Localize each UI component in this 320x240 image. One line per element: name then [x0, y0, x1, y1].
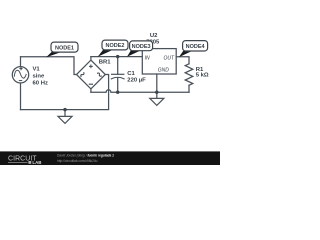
svg-text:GND: GND	[158, 67, 170, 73]
svg-text:OUT: OUT	[163, 55, 175, 61]
svg-text:220 µF: 220 µF	[127, 78, 146, 84]
svg-text:http://circuitlab.com/c96k24u: http://circuitlab.com/c96k24u	[57, 159, 98, 163]
svg-text:NODE1: NODE1	[55, 45, 74, 51]
svg-text:sine: sine	[33, 74, 46, 80]
svg-text:V1: V1	[33, 67, 41, 73]
svg-text:David Jordan (deej) / fuente r: David Jordan (deej) / fuente regulada 1	[57, 154, 114, 158]
svg-text:5 kΩ: 5 kΩ	[196, 73, 209, 79]
svg-text:U2: U2	[150, 33, 158, 39]
svg-text:LAB: LAB	[32, 160, 41, 165]
svg-text:BR1: BR1	[99, 59, 112, 65]
svg-text:NODE4: NODE4	[186, 44, 206, 50]
svg-text:60 Hz: 60 Hz	[33, 81, 48, 87]
svg-text:NODE2: NODE2	[106, 43, 125, 49]
svg-text:NODE3: NODE3	[132, 44, 151, 50]
svg-text:IN: IN	[145, 55, 150, 61]
svg-text:C1: C1	[127, 71, 135, 77]
